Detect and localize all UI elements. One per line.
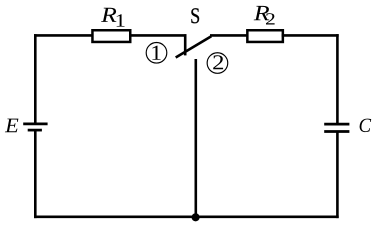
wire: left side lower (battery to bottom corner) xyxy=(34,130,37,218)
wire: right side upper (corner to capacitor) xyxy=(336,34,339,124)
label R2 xyxy=(254,6,275,25)
label E xyxy=(5,119,19,133)
junction dot xyxy=(192,213,200,221)
wire: top-left segment (left corner to R1) xyxy=(34,34,93,37)
node label 1 (circled) xyxy=(146,43,167,64)
label C xyxy=(360,119,372,133)
capacitor C top plate xyxy=(324,123,349,126)
wire: right side lower (capacitor to bottom corner) xyxy=(336,132,339,219)
label R1 xyxy=(101,8,125,27)
wire: R1 to switch contact xyxy=(130,34,186,37)
battery E short plate xyxy=(28,129,42,132)
resistor R1 (box) xyxy=(92,30,130,42)
node label 2 (circled) xyxy=(207,53,228,74)
wire: left side upper (corner to battery) xyxy=(34,34,37,124)
wire: middle vertical (switch throw 2 down to junction) xyxy=(195,59,198,217)
label S (switch) xyxy=(191,8,199,23)
resistor R2 (box) xyxy=(247,30,283,42)
wire: R2 to top-right corner xyxy=(282,34,339,37)
switch S blade (open, between throw 1 and throw 2) xyxy=(176,36,212,57)
switch S contact post xyxy=(184,34,187,55)
capacitor C bottom plate xyxy=(324,130,349,133)
wire: bottom (full width) xyxy=(34,216,339,219)
wire: switch pivot to R2 xyxy=(210,34,247,37)
battery E long plate xyxy=(23,123,47,126)
